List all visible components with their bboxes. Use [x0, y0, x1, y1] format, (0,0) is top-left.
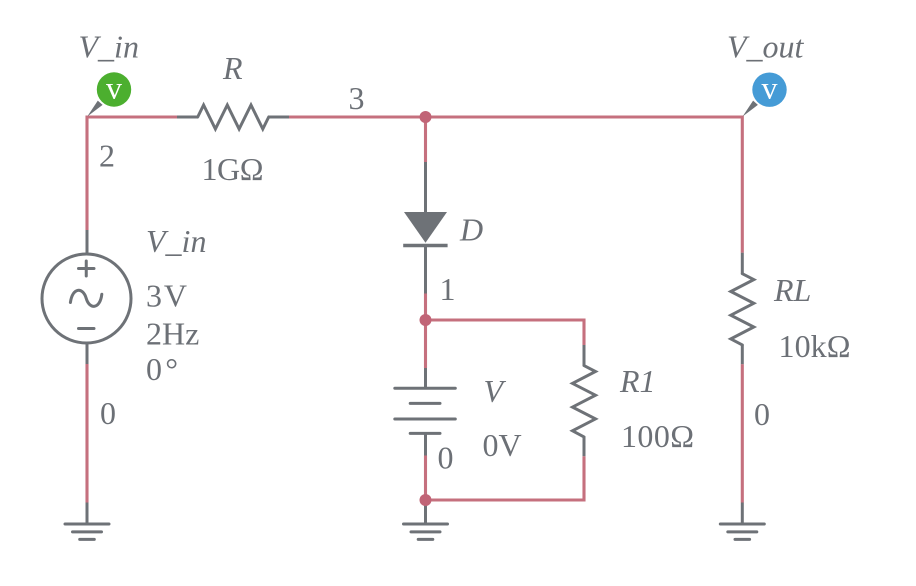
- node label 2: [99, 138, 115, 174]
- junction node 1: [420, 314, 432, 326]
- wire lead bottom of battery V: [424, 433, 427, 455]
- svg-text:3V: 3V: [146, 278, 187, 314]
- diode D: [403, 212, 447, 246]
- label 0V: [483, 427, 522, 463]
- label R: [222, 50, 243, 86]
- wire below R1: [582, 456, 585, 501]
- svg-text:1: 1: [440, 271, 456, 307]
- wire bottom horizontal R1 to battery: [426, 498, 586, 501]
- svg-text:0V: 0V: [483, 427, 522, 463]
- svg-text:D: D: [459, 212, 483, 248]
- wire lead right of R: [269, 116, 289, 119]
- wire left vertical node 2: [85, 116, 88, 231]
- node label 0 battery: [438, 440, 454, 476]
- svg-text:2Hz: 2Hz: [146, 316, 199, 352]
- node label 3: [349, 80, 365, 116]
- label 2Hz: [146, 316, 199, 352]
- label source V_in: [146, 223, 206, 259]
- ground middle stem: [424, 500, 427, 524]
- svg-text:0°: 0°: [146, 351, 178, 387]
- svg-text:V_out: V_out: [727, 29, 805, 65]
- wire lead bottom of R1: [583, 437, 586, 456]
- svg-text:3: 3: [349, 80, 365, 116]
- node label 0 right: [754, 396, 770, 432]
- resistor R1: [573, 366, 596, 437]
- wire lead top of source V_in: [86, 230, 89, 255]
- wire left vertical node 0: [85, 364, 88, 503]
- wire lead bottom of source V_in: [86, 343, 89, 364]
- wire lead left of R: [177, 116, 198, 119]
- svg-text:100Ω: 100Ω: [621, 418, 694, 454]
- svg-text:V_in: V_in: [79, 29, 139, 65]
- svg-text:v: v: [106, 70, 122, 106]
- ac source V_in: [42, 254, 131, 343]
- svg-text:RL: RL: [773, 272, 811, 308]
- wire top horizontal node 3 to V_out corner: [289, 115, 742, 118]
- wire right vertical from V_out corner: [741, 116, 744, 253]
- svg-text:2: 2: [99, 138, 115, 174]
- wire lead top of R1: [583, 345, 586, 366]
- wire node 1 horizontal to R1: [426, 318, 585, 321]
- label probe V_out: [727, 29, 805, 65]
- label D: [459, 212, 483, 248]
- wire battery bottom vertical: [424, 456, 427, 501]
- svg-text:V_in: V_in: [146, 223, 206, 259]
- label 0 degrees: [146, 351, 178, 387]
- wire middle vertical from node 3: [424, 117, 427, 162]
- svg-text:0: 0: [438, 440, 454, 476]
- ground left stem: [86, 503, 89, 525]
- svg-text:0: 0: [754, 396, 770, 432]
- label 100Ω: [621, 418, 694, 454]
- wire top-left horizontal: [87, 115, 177, 118]
- resistor R: [198, 105, 269, 129]
- wire right vertical node 0: [741, 364, 744, 502]
- label R1: [619, 363, 656, 399]
- svg-text:1GΩ: 1GΩ: [202, 151, 264, 187]
- label probe V_in: [79, 29, 139, 65]
- label 10kΩ: [779, 328, 851, 364]
- svg-text:10kΩ: 10kΩ: [779, 328, 851, 364]
- svg-text:0: 0: [100, 395, 116, 431]
- probe V_in: [87, 70, 131, 117]
- wire lead top of RL: [741, 253, 744, 274]
- probe V_out: [743, 70, 787, 117]
- node label 1: [440, 271, 456, 307]
- node label 0 left: [100, 395, 116, 431]
- svg-text:V: V: [484, 373, 507, 409]
- label 1GΩ: [202, 151, 264, 187]
- label RL: [773, 272, 811, 308]
- wire lead top of battery V: [424, 368, 427, 388]
- svg-text:v: v: [762, 70, 778, 106]
- wire lead bottom of RL: [741, 345, 744, 364]
- wire battery top vertical: [424, 320, 427, 368]
- ground right stem: [741, 503, 744, 525]
- ground left: [65, 524, 109, 539]
- label 3V: [146, 278, 187, 314]
- wire lead anode of D: [424, 162, 427, 213]
- junction node 3: [420, 111, 432, 123]
- junction node 0 bottom: [420, 494, 432, 506]
- svg-text:R: R: [222, 50, 243, 86]
- resistor RL: [731, 274, 754, 345]
- label V: [484, 373, 507, 409]
- wire node 1 vertical above R1: [582, 319, 585, 346]
- svg-text:R1: R1: [619, 363, 656, 399]
- wire lead cathode of D: [424, 246, 427, 294]
- ground middle: [404, 524, 448, 539]
- ground right: [720, 524, 764, 539]
- wire middle vertical node 1: [424, 294, 427, 322]
- battery V: [395, 388, 456, 433]
